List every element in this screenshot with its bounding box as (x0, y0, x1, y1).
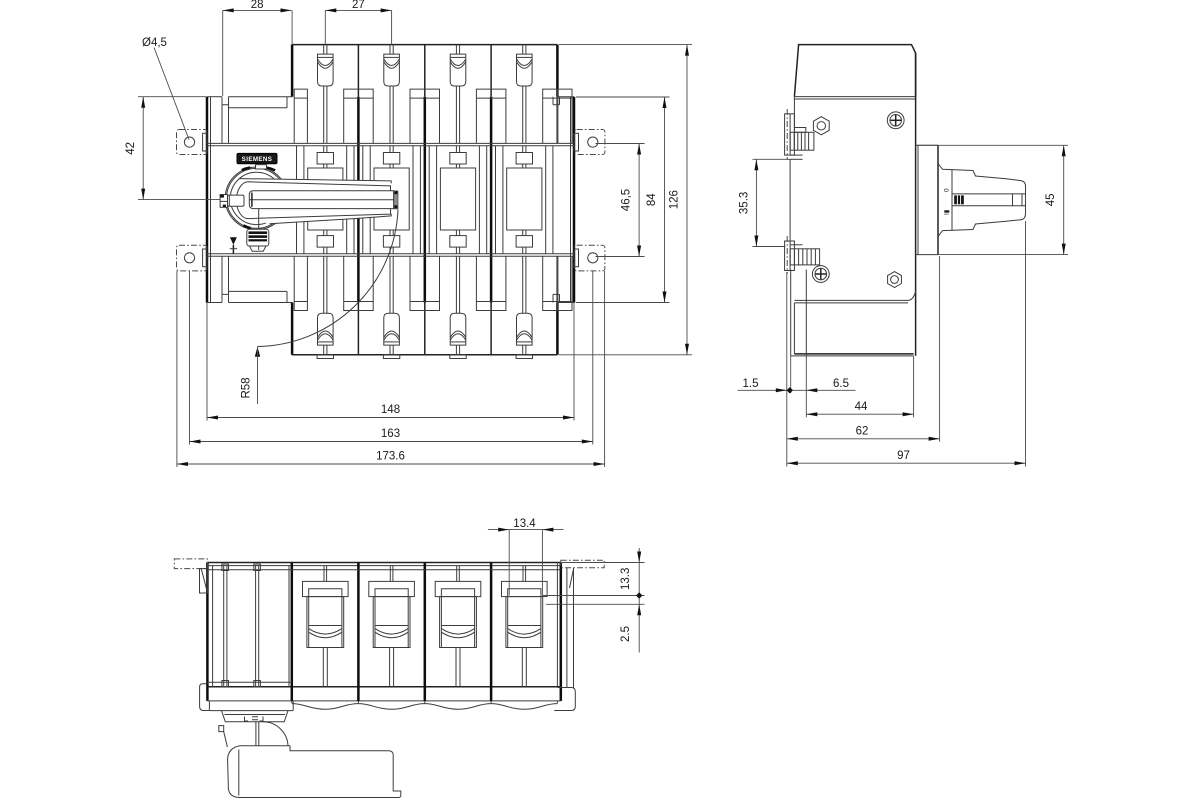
mounting bracket top-left (177, 130, 207, 155)
svg-text:I▮: I▮ (944, 209, 951, 215)
svg-text:13.4: 13.4 (513, 518, 536, 530)
din rail claw bottom (785, 236, 820, 274)
side view: top block outline (794, 45, 915, 99)
hole diameter label 4.5 with leader (142, 37, 189, 140)
dimension 13.4 extension lines (509, 530, 542, 596)
svg-text:6.5: 6.5 (833, 378, 849, 390)
dimension 13.3 and 2.5 extension lines (542, 563, 645, 605)
screw phillips bottom-left (812, 266, 829, 283)
svg-text:0: 0 (944, 188, 951, 192)
svg-text:35.3: 35.3 (738, 192, 750, 214)
svg-text:173.6: 173.6 (376, 451, 405, 463)
front view: bottom terminal block (292, 303, 557, 355)
bottom view: right mounting tab (561, 560, 604, 687)
svg-text:84: 84 (646, 193, 658, 206)
handle pivot circle (225, 167, 288, 230)
svg-text:13.3: 13.3 (620, 568, 632, 590)
dimension 42 (125, 97, 145, 200)
dimension 13.3 (620, 548, 642, 653)
handle position index tabs on circle (242, 165, 275, 250)
screw hex top-left (813, 117, 829, 135)
front view: module separator walls (297, 45, 553, 355)
svg-text:46,5: 46,5 (620, 189, 632, 211)
mounting bracket top-right (574, 130, 605, 155)
svg-text:27: 27 (352, 0, 365, 11)
svg-text:126: 126 (668, 190, 680, 209)
bracket extension lines below front view (177, 271, 605, 467)
handle lever (236, 179, 398, 224)
dimension 42 extension lines (138, 97, 220, 200)
svg-text:1.5: 1.5 (743, 378, 759, 390)
open direction arrow symbol (230, 237, 237, 253)
dimension 28 (223, 0, 292, 12)
svg-text:163: 163 (381, 428, 400, 440)
svg-text:45: 45 (1045, 194, 1057, 207)
dimension 27 extension lines (325, 10, 391, 44)
bottom view: wavy lower edge (292, 701, 558, 709)
side view: left profile (790, 97, 806, 356)
bottom view: body outline (207, 563, 560, 701)
front view: central body outline (207, 97, 574, 303)
dimension 126 (668, 45, 689, 355)
front view: module windows (304, 146, 546, 254)
mounting bracket bottom-right (574, 245, 605, 271)
dimension 28 extension lines (223, 10, 292, 96)
din rail claw top (785, 109, 814, 160)
side view lower extension lines (787, 221, 1026, 467)
handle swing arc R58 (241, 210, 399, 405)
screw hex bottom-right (888, 272, 902, 288)
dimension 45 extension lines (918, 145, 1068, 254)
dimension 97 (787, 450, 1026, 465)
front view: front bezel split lines (207, 143, 574, 256)
bottom view: handle pivot details (219, 722, 288, 747)
dimension 173.6 (177, 451, 605, 466)
svg-text:28: 28 (251, 0, 264, 11)
svg-text:SIEMENS: SIEMENS (242, 156, 273, 163)
bottom view: corner lobes (200, 684, 576, 711)
bottom view: fuse carriers (303, 566, 548, 687)
dimension 62 (787, 426, 940, 441)
front view: top terminal block (292, 45, 557, 97)
svg-text:62: 62 (856, 426, 869, 438)
dimension 13.4 (488, 518, 564, 532)
svg-text:Ø4,5: Ø4,5 (142, 37, 167, 49)
svg-text:44: 44 (855, 401, 868, 413)
dimension 126 extension lines (559, 45, 692, 355)
rotary shaft side profile (938, 164, 1026, 237)
padlock tab with ribs (247, 229, 269, 251)
bottom view: left mounting tab (174, 559, 207, 593)
dimension 35.3 (738, 159, 758, 246)
svg-text:R58: R58 (241, 377, 253, 398)
dimension 46.5 extension lines (596, 144, 645, 257)
dimension 6.5 (806, 378, 849, 392)
dimension 35.3 extension lines (753, 159, 791, 246)
bottom view: handle silhouette (228, 746, 401, 798)
svg-text:2.5: 2.5 (620, 626, 632, 642)
bottom view: switch tray (209, 701, 293, 722)
mounting bracket bottom-left (177, 245, 207, 271)
dimension 44 (806, 401, 913, 416)
front view: terminal recess walls (294, 89, 572, 310)
dimension 46.5 (620, 144, 641, 257)
svg-text:42: 42 (125, 142, 137, 155)
screw phillips top-right (887, 112, 904, 129)
dimension 84 extension lines (576, 97, 670, 303)
dimension 27 (325, 0, 391, 12)
siemens logo label (237, 153, 277, 163)
dimension 1.5 (738, 378, 856, 393)
dimension 2.5 (620, 626, 632, 642)
side view: right edge and flange (916, 53, 938, 356)
bottom view: internal walls (207, 563, 560, 701)
svg-text:148: 148 (381, 404, 400, 416)
svg-text:97: 97 (897, 450, 910, 462)
front view: fuse clips bottom (317, 256, 532, 358)
front view: left strip notches (222, 97, 560, 303)
dimension 45 (1045, 145, 1066, 254)
dimension 84 (646, 97, 667, 303)
front view: fuse clips top (318, 45, 533, 144)
dimension 148 (207, 404, 574, 419)
handle shaft end tabs (220, 195, 244, 208)
dimension 163 (190, 428, 593, 443)
side view: bottom block outline (791, 291, 916, 356)
